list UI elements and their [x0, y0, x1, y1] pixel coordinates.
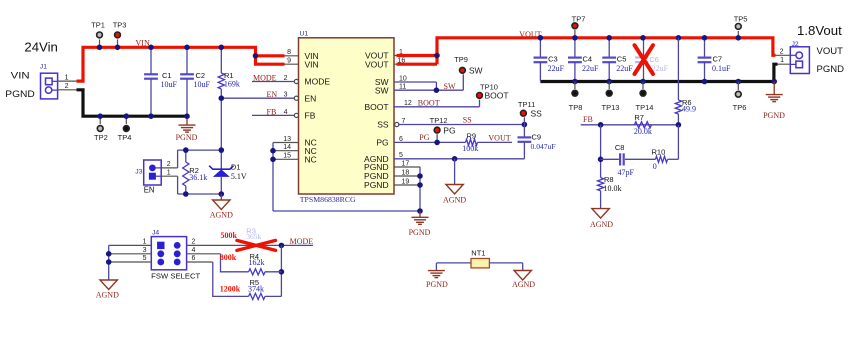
svg-text:SW: SW [375, 85, 389, 95]
svg-text:14: 14 [283, 144, 291, 151]
svg-text:J2: J2 [792, 41, 799, 48]
svg-text:AGND: AGND [443, 196, 466, 205]
resistor R2 [185, 150, 187, 162]
testpoint TP14 [642, 82, 644, 90]
svg-text:SS: SS [531, 108, 543, 118]
svg-text:1: 1 [65, 74, 69, 81]
svg-text:NT1: NT1 [471, 248, 485, 257]
svg-text:TP2: TP2 [94, 133, 108, 142]
wire EN net [221, 97, 295, 99]
svg-text:FB: FB [267, 107, 277, 116]
svg-text:NC: NC [305, 154, 317, 164]
svg-text:12: 12 [404, 100, 412, 107]
svg-text:47pF: 47pF [618, 168, 635, 177]
svg-text:13: 13 [283, 136, 291, 143]
svg-text:8: 8 [287, 49, 291, 56]
svg-text:365k: 365k [246, 232, 261, 241]
testpoint TP11 [521, 110, 527, 116]
svg-text:VIN: VIN [305, 59, 319, 69]
svg-text:R7: R7 [634, 113, 644, 122]
svg-text:PG: PG [443, 125, 455, 135]
testpoint TP5 [737, 31, 739, 38]
svg-text:TP6: TP6 [733, 103, 747, 112]
red X over C6 [635, 45, 654, 74]
svg-text:FB: FB [305, 111, 316, 121]
wire PGND thick black output rail [540, 80, 774, 83]
svg-text:TP9: TP9 [454, 55, 468, 64]
svg-text:VOUT: VOUT [365, 59, 389, 69]
U1 pin input circles MODE EN FB SS [294, 79, 298, 83]
svg-text:C1: C1 [162, 71, 172, 80]
svg-text:MODE: MODE [253, 74, 277, 83]
svg-text:2: 2 [65, 83, 69, 90]
svg-text:PGND: PGND [409, 228, 431, 237]
svg-text:D1: D1 [231, 163, 241, 172]
svg-text:U1: U1 [300, 31, 309, 38]
svg-text:18: 18 [402, 169, 410, 176]
ground PGND under U1 [419, 211, 421, 217]
svg-text:49.9: 49.9 [682, 105, 696, 114]
capacitor C5 [608, 38, 610, 58]
net tie NT1 [436, 262, 522, 264]
svg-text:1200k: 1200k [220, 285, 241, 294]
svg-text:0.047uF: 0.047uF [531, 142, 556, 151]
svg-text:AGND: AGND [210, 211, 233, 220]
svg-text:SW: SW [444, 82, 456, 91]
wire J3 pin1 down [177, 176, 179, 194]
J4 right pin stubs [187, 244, 237, 246]
svg-text:PGND: PGND [176, 133, 198, 142]
svg-text:1: 1 [143, 239, 147, 246]
wire FB net [252, 114, 295, 116]
svg-text:1.8Vout: 1.8Vout [797, 23, 842, 38]
svg-text:PGND: PGND [817, 64, 845, 75]
svg-text:PGND: PGND [763, 111, 785, 120]
svg-text:2: 2 [780, 49, 784, 56]
capacitor C7 [704, 38, 706, 58]
svg-text:100k: 100k [462, 144, 478, 153]
svg-text:C6: C6 [649, 55, 659, 64]
svg-text:TP5: TP5 [734, 14, 748, 23]
U1 PGND pin stubs [394, 166, 420, 168]
testpoint TP7 [574, 30, 576, 38]
svg-text:0: 0 [653, 162, 657, 171]
testpoint TP1 [99, 39, 101, 47]
svg-text:PGND: PGND [364, 180, 389, 190]
capacitor C6 not populated [643, 38, 645, 82]
svg-text:EN: EN [144, 186, 155, 195]
svg-text:374k: 374k [248, 284, 264, 293]
svg-text:C3: C3 [548, 54, 558, 63]
svg-text:SS: SS [463, 115, 472, 124]
resistor R3 not populated 500k option [237, 244, 313, 246]
svg-text:BOOT: BOOT [418, 98, 440, 107]
svg-text:TPSM86838RCG: TPSM86838RCG [300, 195, 356, 204]
svg-text:FSW SELECT: FSW SELECT [151, 273, 201, 281]
connector J4 [151, 237, 186, 270]
wire J2 PGND black [774, 63, 790, 65]
svg-text:162k: 162k [249, 258, 265, 267]
capacitor C1 [150, 47, 152, 74]
svg-text:SS: SS [377, 120, 389, 130]
svg-text:SW: SW [469, 66, 483, 76]
svg-text:FB: FB [583, 115, 593, 124]
wire FB net right [581, 124, 679, 126]
wire PGND thick black from J1 [77, 90, 188, 116]
svg-text:C8: C8 [615, 143, 625, 152]
wire R6 to R10 [677, 125, 679, 160]
ground AGND under D1 [220, 194, 222, 200]
svg-text:10.0k: 10.0k [604, 184, 622, 193]
wire J4 left tie to AGND [108, 245, 110, 280]
testpoint TP13 [608, 82, 610, 90]
junction dots PGND wire [97, 113, 103, 119]
wire VOUT thick red rail [394, 55, 420, 57]
IC U1 TPSM86838RCG body [299, 38, 395, 194]
testpoint TP10 [477, 93, 483, 99]
svg-text:J1: J1 [40, 64, 47, 71]
wire J3 to EN rail [177, 150, 179, 168]
svg-text:4: 4 [192, 247, 196, 254]
resistor R6 [677, 38, 679, 100]
svg-text:PG: PG [419, 133, 429, 142]
svg-text:AGND: AGND [512, 280, 535, 289]
svg-text:2: 2 [192, 239, 196, 246]
svg-text:VOUT: VOUT [817, 46, 844, 57]
svg-text:15: 15 [283, 153, 291, 160]
svg-text:R10: R10 [652, 147, 666, 156]
svg-text:TP3: TP3 [113, 21, 127, 30]
svg-text:TP1: TP1 [91, 21, 105, 30]
connector J3 [144, 160, 162, 185]
capacitor C9 [523, 125, 525, 138]
wire NT1 right to AGND [522, 263, 524, 271]
ground AGND under R8 [592, 209, 609, 219]
junction dots VIN rail [97, 45, 103, 51]
junction dots output PGND rail [572, 79, 578, 85]
svg-text:10uF: 10uF [161, 80, 178, 89]
svg-text:22uF: 22uF [616, 64, 633, 73]
wire PG to VOUT label [478, 141, 513, 143]
svg-text:C4: C4 [583, 54, 593, 63]
testpoint TP2 [99, 116, 101, 124]
svg-text:C9: C9 [532, 132, 542, 141]
junction dots EN subcircuit [183, 147, 189, 153]
svg-text:22uF: 22uF [548, 64, 565, 73]
wire C8/R10 branch [601, 158, 619, 160]
svg-text:VIN: VIN [136, 38, 150, 47]
J1 pin1 stub [57, 80, 77, 82]
svg-text:3: 3 [284, 92, 288, 99]
svg-text:500k: 500k [221, 231, 238, 240]
svg-text:AGND: AGND [96, 291, 119, 300]
resistor R8 [598, 178, 604, 191]
svg-text:5.1V: 5.1V [231, 172, 247, 181]
J4 left pin stubs [109, 244, 152, 246]
svg-text:MODE: MODE [290, 237, 314, 246]
svg-text:24Vin: 24Vin [24, 40, 58, 55]
svg-text:TP12: TP12 [430, 116, 448, 125]
zener diode D1 [220, 150, 222, 169]
testpoint TP12 [436, 134, 438, 142]
wire FB vertical [600, 125, 602, 178]
svg-text:22uF: 22uF [652, 64, 669, 73]
testpoint TP9 [460, 67, 466, 73]
resistor R4 800k option [221, 254, 249, 272]
wire PGND pins tie [419, 167, 421, 211]
svg-text:BOOT: BOOT [485, 90, 509, 100]
testpoint TP6 [737, 82, 739, 91]
svg-text:17: 17 [402, 160, 410, 167]
svg-text:C2: C2 [196, 71, 206, 80]
resistor R10 [656, 156, 668, 162]
red X over R3 [237, 240, 276, 250]
svg-text:PGND: PGND [426, 280, 448, 289]
junction dots VOUT rail [538, 35, 544, 41]
wire VIN thick red from J1 to U1 [77, 47, 256, 81]
svg-text:19: 19 [402, 178, 410, 185]
svg-text:BOOT: BOOT [365, 102, 389, 112]
svg-text:5: 5 [143, 255, 147, 262]
ground PGND at NT1 [428, 270, 445, 272]
svg-text:10uF: 10uF [194, 80, 211, 89]
svg-text:6: 6 [192, 255, 196, 262]
connector J2 [790, 47, 809, 74]
svg-text:VIN: VIN [11, 71, 30, 82]
J3 pin1 stub [161, 175, 177, 177]
ground AGND pin5 [446, 185, 463, 195]
svg-text:TP13: TP13 [602, 103, 620, 112]
svg-text:3: 3 [143, 247, 147, 254]
wire SS net [398, 124, 524, 126]
ground PGND under C2 [179, 124, 196, 126]
svg-text:5: 5 [399, 152, 403, 159]
wire AGND pin5 net [394, 158, 524, 160]
svg-text:2: 2 [167, 161, 171, 168]
svg-text:TP14: TP14 [636, 103, 654, 112]
resistor R5 1200k option [213, 262, 249, 296]
capacitor C2 [186, 47, 188, 74]
wire NT1 left to PGND [435, 263, 437, 270]
svg-text:J4: J4 [152, 230, 159, 237]
wire PG net [394, 141, 466, 143]
resistor R7 [634, 122, 651, 128]
svg-text:J3: J3 [135, 169, 142, 176]
svg-text:20.0k: 20.0k [634, 127, 652, 136]
resistor R9 [466, 139, 478, 145]
capacitor C4 [574, 38, 576, 58]
connector J1 [41, 73, 58, 99]
wire MODE junction vertical [280, 245, 282, 296]
svg-text:C5: C5 [617, 54, 627, 63]
svg-text:PG: PG [376, 138, 388, 148]
svg-text:1: 1 [780, 57, 784, 64]
ground PGND at J2 [773, 82, 775, 95]
wire BOOT net [394, 106, 480, 108]
svg-text:TP7: TP7 [572, 14, 586, 23]
svg-text:VOUT: VOUT [488, 134, 510, 143]
wire NC tie-down [272, 143, 274, 212]
svg-text:C7: C7 [713, 54, 723, 63]
ground AGND at J4 [100, 280, 117, 290]
svg-text:800k: 800k [220, 253, 237, 262]
svg-text:9: 9 [287, 58, 291, 65]
svg-text:EN: EN [305, 93, 317, 103]
resistor R1 [220, 47, 222, 73]
capacitor C8 [619, 153, 621, 165]
svg-text:2: 2 [284, 75, 288, 82]
svg-text:AGND: AGND [590, 220, 613, 229]
svg-text:22uF: 22uF [582, 64, 599, 73]
J3 pin2 stub [161, 167, 177, 169]
svg-text:MODE: MODE [305, 77, 331, 87]
wire SW net [394, 81, 436, 83]
svg-text:R8: R8 [604, 175, 614, 184]
svg-text:TP8: TP8 [569, 103, 583, 112]
J1 pin2 stub [57, 89, 77, 91]
svg-text:36.1k: 36.1k [189, 173, 207, 182]
svg-text:EN: EN [267, 90, 278, 99]
testpoint TP3 [117, 39, 119, 47]
U1 NC pin stubs [273, 142, 299, 144]
svg-text:R9: R9 [467, 132, 477, 141]
ground AGND at NT1 [514, 271, 531, 281]
wire MODE net [252, 81, 295, 83]
svg-text:TP4: TP4 [118, 133, 132, 142]
svg-text:169k: 169k [224, 80, 240, 89]
capacitor C3 [539, 38, 541, 58]
svg-text:1: 1 [167, 169, 171, 176]
testpoint TP4 [125, 116, 127, 124]
svg-text:0.1uF: 0.1uF [712, 64, 731, 73]
testpoint TP8 [574, 82, 576, 90]
svg-text:4: 4 [284, 109, 288, 116]
svg-text:PGND: PGND [5, 89, 35, 100]
